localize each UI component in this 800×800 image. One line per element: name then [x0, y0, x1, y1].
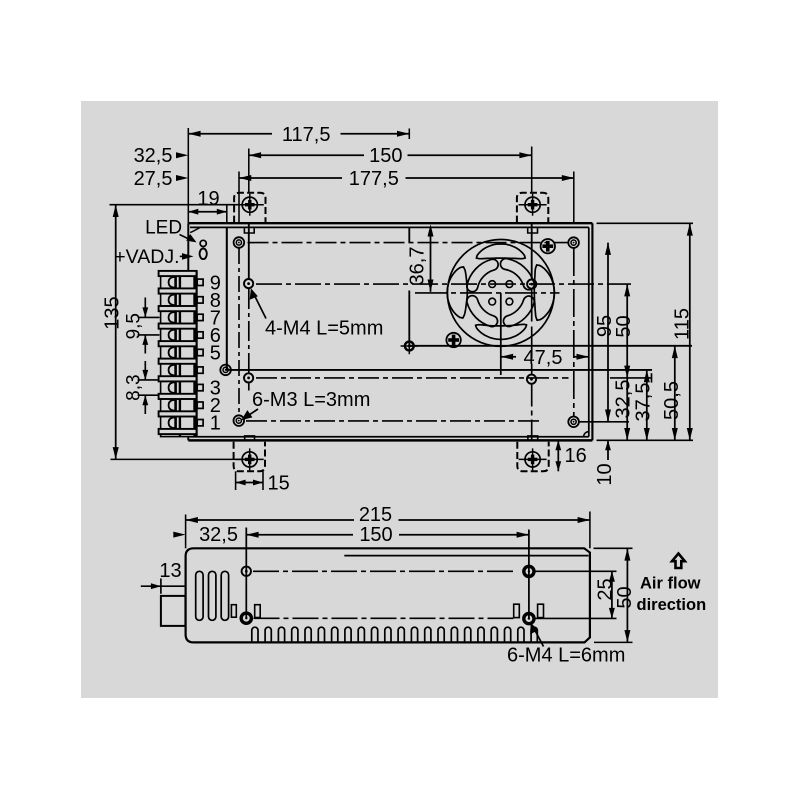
- screw column left x=246.3: [245, 528, 247, 619]
- centerline x=531.7 right mounting column: [531, 147, 533, 193]
- extension line y=459.4: [111, 458, 251, 460]
- internal line x=409.3 lower: [408, 291, 410, 347]
- svg-text:+VADJ.: +VADJ.: [114, 246, 179, 268]
- svg-text:47,5: 47,5: [524, 347, 563, 369]
- centerline row y=377.9: [256, 377, 569, 379]
- dim 15: [235, 471, 237, 490]
- centerline x=248.8 left mounting column: [248, 149, 250, 193]
- svg-text:13: 13: [159, 560, 181, 582]
- M3 row right extension tick y=377.9: [610, 377, 652, 379]
- dim 16: [557, 440, 559, 471]
- dim 50 side: [626, 548, 628, 642]
- dim 150: [249, 154, 364, 156]
- dim 36,7: [430, 227, 432, 292]
- extension line y=223.3 right: [597, 222, 694, 224]
- svg-text:6-M4 L=6mm: 6-M4 L=6mm: [507, 645, 625, 667]
- fan hub hole: [489, 281, 496, 288]
- rivet top-right: [568, 237, 579, 248]
- dim 32,5 right: [626, 378, 628, 440]
- fan grille outer circle: [447, 240, 554, 347]
- extension line x=226.8 above case: [226, 206, 228, 224]
- bracket screw bottom-left: [242, 452, 257, 467]
- 4-M4 hole left: [244, 279, 253, 288]
- terminal pin stub: [197, 384, 203, 390]
- svg-text:19: 19: [197, 188, 219, 210]
- terminal pin stub: [197, 332, 203, 338]
- terminal separator bar: [159, 324, 197, 329]
- centerline row y=421.8 right extension: [580, 421, 630, 423]
- terminal separator bar: [159, 359, 197, 364]
- svg-text:150: 150: [369, 145, 402, 167]
- dim 25: [611, 571, 613, 618]
- svg-text:6-M3 L=3mm: 6-M3 L=3mm: [252, 389, 370, 411]
- LED indicator circle: [200, 240, 206, 246]
- dim 115: [689, 223, 691, 440]
- VADJ leader arrow: [180, 255, 186, 257]
- fan hub hole: [506, 281, 513, 288]
- mounting bracket bottom-left: [234, 442, 265, 472]
- side screw top-left: [242, 567, 251, 576]
- svg-text:LED: LED: [145, 218, 182, 239]
- terminal screw: [169, 382, 176, 393]
- svg-text:27,5: 27,5: [134, 168, 173, 190]
- fan inner blade SW: [472, 301, 492, 321]
- svg-text:117,5: 117,5: [282, 124, 331, 146]
- centerline x=573.8 right rivet column: [573, 172, 575, 224]
- side screw bottom-right (6-M4): [524, 614, 534, 624]
- 6-M3 hole right: [527, 375, 536, 384]
- terminal screw: [169, 312, 176, 323]
- centerline row y=242.6: [248, 242, 569, 244]
- terminal screw: [169, 365, 176, 376]
- dim 135: [115, 205, 117, 460]
- AC inlet socket: [161, 596, 186, 626]
- dim 215: [186, 519, 354, 521]
- terminal separator bar: [159, 271, 197, 276]
- svg-text:5: 5: [210, 343, 221, 365]
- svg-text:135: 135: [102, 296, 124, 329]
- fan vertical centerline below center: [500, 293, 502, 375]
- fan inner blade NE: [506, 264, 529, 284]
- mounting bracket top-right: [517, 193, 548, 223]
- screw column right x=528.9: [528, 530, 530, 619]
- fan inner blade SE: [509, 302, 529, 322]
- fan outer crescent slot top: [476, 244, 525, 259]
- svg-text:16: 16: [565, 445, 587, 467]
- bracket tab slot top-right: [528, 228, 538, 233]
- terminal pin stub: [197, 314, 203, 320]
- dim 10: [607, 440, 609, 460]
- svg-text:115: 115: [671, 308, 693, 340]
- svg-text:50: 50: [614, 586, 636, 608]
- leader arrow 4-M4: [255, 296, 267, 319]
- M3 ring screw top-left: [234, 237, 245, 248]
- terminal pin stub: [197, 420, 203, 426]
- bracket tab slot bottom-left: [245, 436, 255, 440]
- fan horizontal centerline y=292.9: [415, 292, 560, 294]
- 6-M3 hole left: [244, 373, 253, 382]
- air flow direction arrow: [672, 554, 685, 569]
- centerline x=239 through M3 screws: [238, 172, 240, 224]
- case outline (top view): [188, 222, 592, 224]
- side view cover seam line: [344, 555, 588, 557]
- internal seam line x=226.8: [226, 227, 228, 370]
- 4-M4 hole right: [527, 280, 536, 289]
- mounting bracket bottom-right: [517, 442, 548, 472]
- centerline row y=618.4: [254, 617, 514, 619]
- terminal screw: [169, 277, 176, 288]
- leader arrow 6-M3: [248, 409, 259, 416]
- svg-text:50: 50: [613, 315, 635, 337]
- fan outer crescent slot bottom: [476, 324, 527, 339]
- terminal separator bar: [159, 288, 197, 293]
- terminal separator bar: [159, 341, 197, 346]
- small vent rect: [231, 605, 236, 618]
- extension line y=440.3 right: [597, 439, 694, 441]
- LED leader arrow: [180, 235, 191, 240]
- svg-text:36,7: 36,7: [407, 247, 429, 286]
- rivet mid-left: [220, 365, 231, 376]
- centerline row y=571.3: [253, 570, 514, 572]
- svg-text:1: 1: [210, 413, 221, 435]
- terminal screw: [169, 417, 176, 428]
- extension line x=185.6 above side view: [185, 515, 187, 549]
- tick x=160.9: [160, 579, 162, 594]
- svg-text:10: 10: [594, 463, 616, 485]
- svg-text:32,5: 32,5: [199, 524, 238, 546]
- terminal pin stub: [197, 349, 203, 355]
- centerline row y=618.4 right ext: [536, 617, 617, 619]
- terminal screw: [169, 400, 176, 411]
- side view case outline: [186, 548, 590, 642]
- bracket screw top-left: [242, 197, 257, 212]
- svg-text:9,5: 9,5: [124, 313, 145, 339]
- svg-text:15: 15: [268, 473, 290, 495]
- fan inner blade NW: [472, 265, 492, 287]
- target screw x=409: [405, 342, 414, 351]
- leader arrow 6-M4: [535, 630, 544, 647]
- terminal pin stub: [197, 279, 203, 285]
- terminal separator bar: [159, 376, 197, 381]
- gray drawing panel: [81, 101, 718, 698]
- dim 50: [626, 284, 628, 378]
- phillips screw top-right: [541, 239, 555, 253]
- chassis tab 2: [514, 604, 520, 617]
- dim 37,5: [646, 370, 648, 440]
- extension line y=548.3 right of side view: [594, 547, 633, 549]
- svg-text:32,5: 32,5: [612, 380, 634, 419]
- dim 177,5: [239, 177, 342, 179]
- rivet bottom-right: [568, 417, 579, 428]
- terminal screw: [169, 347, 176, 358]
- dim 47,5: [501, 354, 513, 360]
- svg-text:32,5: 32,5: [134, 145, 173, 167]
- svg-text:8,3: 8,3: [124, 374, 145, 400]
- terminal separator bar: [159, 394, 197, 399]
- centerline row y=420.9 left: [246, 420, 541, 422]
- terminal pin stub: [197, 402, 203, 408]
- fan hub hole: [506, 298, 513, 305]
- vent slots: [196, 571, 203, 620]
- fan outer crescent slot left: [447, 267, 467, 318]
- terminal pin stub: [197, 297, 203, 303]
- terminal screw: [169, 330, 176, 341]
- bracket screw top-right: [525, 197, 540, 212]
- internal line x=409.3 upper: [408, 227, 410, 242]
- svg-text:37,5: 37,5: [632, 383, 654, 422]
- extension line x=589.9 above side view: [589, 512, 591, 549]
- bracket tab slot bottom-right: [528, 436, 538, 440]
- svg-text:direction: direction: [637, 596, 707, 614]
- mounting bracket top-left: [234, 193, 265, 223]
- svg-text:50,5: 50,5: [661, 381, 683, 420]
- M3 ring screw bottom-left: [234, 415, 245, 426]
- terminal pin stub: [197, 367, 203, 373]
- extension line y=642.4 right of side view: [594, 641, 633, 643]
- internal shelf line y=370 with right extension: [226, 369, 652, 371]
- side screw top-right: [524, 566, 534, 576]
- chassis tab 1: [255, 605, 261, 618]
- centerline row y=571.3 right ext: [536, 570, 617, 572]
- extension line y=204.7: [110, 204, 241, 206]
- case inner cover lines: [190, 226, 589, 228]
- VADJ potentiometer: [200, 249, 207, 260]
- svg-text:150: 150: [359, 524, 392, 546]
- dim 9,5: [138, 316, 160, 318]
- bracket tab slot top-left: [244, 228, 254, 233]
- dim 117,5: [408, 129, 410, 140]
- extension line x=188.3 above case: [187, 128, 189, 223]
- phillips screw below fan: [446, 333, 460, 347]
- terminal separator bar: [159, 411, 197, 416]
- top-left corner chamfer: [190, 228, 200, 233]
- fan hub hole: [489, 298, 496, 305]
- terminal separator bar: [159, 306, 197, 311]
- chassis tab 3: [538, 604, 544, 617]
- dim 95: [607, 243, 609, 422]
- svg-text:4-M4 L=5mm: 4-M4 L=5mm: [265, 317, 383, 339]
- terminal screw: [169, 295, 176, 306]
- bottom-right corner notch: [584, 432, 589, 437]
- centerline row y=284.1: [256, 283, 631, 285]
- bottom scallop vents: [252, 627, 538, 642]
- dim 150 side: [246, 534, 353, 536]
- svg-text:Air flow: Air flow: [640, 574, 701, 592]
- svg-text:177,5: 177,5: [349, 168, 399, 190]
- fan outer crescent slot right: [534, 265, 554, 320]
- side screw bottom-left (6-M4): [241, 613, 251, 623]
- terminal separator bar: [159, 429, 197, 434]
- dim 8,3: [138, 379, 160, 381]
- dim 50,5: [674, 346, 676, 441]
- bracket screw bottom-right: [525, 452, 540, 467]
- terminal block body: [161, 271, 197, 436]
- internal shelf line y=345.8 with right extension: [409, 345, 692, 347]
